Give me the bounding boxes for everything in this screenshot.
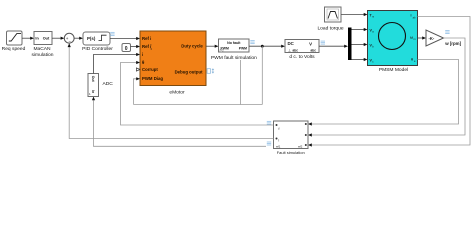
svg-text:In: In [91, 90, 95, 93]
junction on duty line [261, 45, 264, 48]
svg-text:⊥: ⊥ [288, 49, 291, 53]
badge right of d c to Volts [321, 41, 325, 44]
svg-text:Req speed: Req speed [2, 46, 26, 52]
svg-text:P(s): P(s) [87, 36, 96, 41]
block d c to Volts [285, 40, 319, 60]
svg-text:No fault: No fault [227, 41, 241, 45]
block Load torque [317, 7, 343, 31]
wire PMSM iab to right edge and down to Fault simulation input 3 [308, 17, 470, 147]
svg-text:-K-: -K- [429, 36, 435, 41]
svg-text:wf2: wf2 [298, 144, 303, 148]
wire demux to PMSM Vb [352, 43, 368, 46]
svg-text:i: i [142, 52, 143, 57]
badge at fault simulation output 2 [267, 142, 271, 145]
wire demux to PMSM Va [352, 28, 368, 31]
wire fault out1 to eMotor theta [121, 61, 274, 125]
svg-text:abc: abc [293, 49, 299, 53]
svg-text:Corrupt: Corrupt [142, 67, 158, 72]
wire Load torque to PMSM Tm [341, 13, 368, 16]
svg-text:PWM: PWM [221, 46, 229, 50]
wire gain output down to Fault simulation input 2 [308, 38, 465, 137]
wire diag loop up to eMotor PWM Diag [134, 77, 141, 104]
wire diag loop horizontal [134, 104, 263, 106]
badge at PID output [110, 32, 114, 35]
wire d c to Volts to demux [319, 45, 348, 48]
svg-text:ADC: ADC [103, 81, 114, 87]
wire PWM fault simulation bottom down [240, 60, 242, 105]
wire PWM diag loop: duty junction down [261, 46, 263, 104]
constant 0 [122, 44, 131, 53]
wire Req speed to MaCAN [22, 37, 34, 40]
wire ADC out to eMotor i [94, 53, 141, 74]
badge at fault simulation output 1 [267, 121, 271, 124]
svg-text:m: m [413, 38, 415, 41]
debug output badges [207, 68, 214, 73]
svg-text:PWM fault simulation: PWM fault simulation [211, 55, 257, 61]
svg-text:Fault simulation: Fault simulation [277, 150, 305, 155]
svg-text:w [rpm]: w [rpm] [444, 41, 461, 46]
svg-text:θ: θ [411, 58, 413, 62]
wire fault out2 to sum minus input [68, 43, 274, 138]
svg-text:Duty cycle: Duty cycle [181, 44, 203, 49]
wire eMotor Duty cycle to PWM fault simulation [206, 45, 219, 48]
svg-text:PID Controller: PID Controller [82, 46, 113, 52]
svg-text:f: f [279, 127, 280, 131]
svg-text:MaCAN: MaCAN [33, 46, 51, 52]
wire demux to PMSM Vc [352, 58, 368, 61]
wire PWM fault simulation to d c to Volts [249, 45, 285, 48]
wire sum to PID [74, 37, 83, 40]
svg-text:Out: Out [91, 76, 95, 83]
svg-text:simulation: simulation [31, 52, 53, 58]
svg-text:abc: abc [311, 49, 317, 53]
svg-text:PWM Diag: PWM Diag [142, 76, 163, 81]
block eMotor [140, 31, 206, 95]
wire MaCAN to sum [52, 37, 64, 40]
svg-text:DC: DC [288, 41, 295, 46]
svg-text:eMotor: eMotor [169, 89, 185, 95]
wire constant 0 to eMotor Ref iq [131, 45, 141, 48]
svg-text:wf1: wf1 [276, 144, 281, 148]
svg-text:i: i [411, 14, 412, 18]
svg-text:m: m [372, 16, 374, 19]
block PID Controller [82, 32, 113, 52]
badge right of PWM fault simulation [250, 41, 254, 44]
sum junction [64, 33, 74, 43]
unconnected Corrupt port hollow arrow [136, 68, 140, 71]
block Fault simulation [274, 121, 309, 155]
gain -K- [426, 30, 444, 46]
block ADC [88, 74, 113, 97]
svg-text:PWM: PWM [239, 46, 247, 50]
svg-text:Debug output: Debug output [175, 69, 203, 74]
svg-text:V: V [309, 41, 312, 46]
wire PMSM omega to Gain [418, 36, 427, 39]
svg-text:Ref i: Ref i [142, 36, 151, 41]
svg-text:Load torque: Load torque [317, 25, 343, 31]
badge above gain output [445, 31, 449, 34]
svg-text:d c. to Volts: d c. to Volts [289, 54, 315, 60]
wire PMSM theta down to Fault simulation input 1 [308, 60, 459, 126]
block MaCAN simulation [31, 32, 53, 58]
block PWM fault simulation [211, 39, 257, 61]
wire PID to eMotor Ref i [110, 37, 140, 40]
wire speed feedback to ADC input [92, 97, 266, 147]
svg-text:PMSM Model: PMSM Model [379, 67, 408, 73]
svg-text:0: 0 [125, 46, 128, 52]
block Req speed [2, 31, 26, 52]
block PMSM Model [368, 11, 418, 73]
svg-text:Out: Out [43, 37, 50, 41]
demux [348, 28, 352, 61]
